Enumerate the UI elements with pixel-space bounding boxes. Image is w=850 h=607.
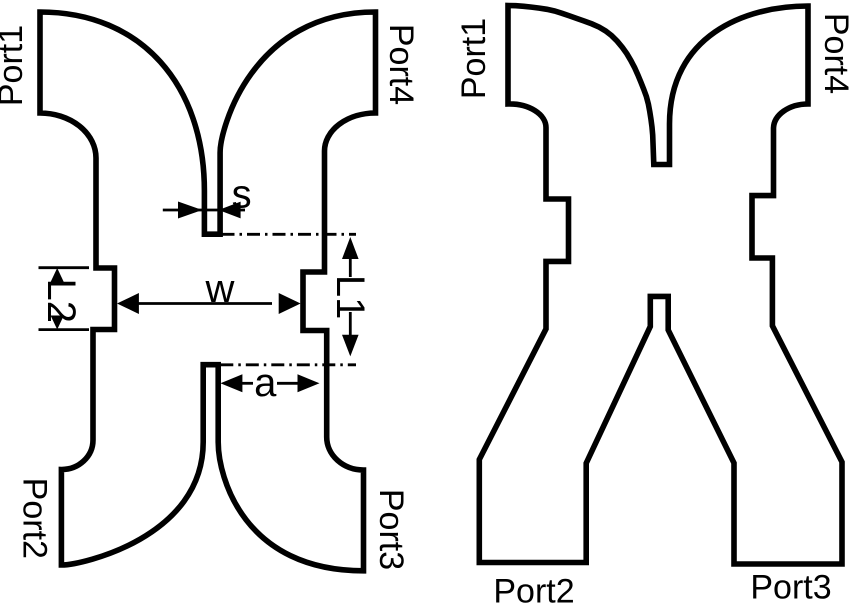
right crossover outline (stepped-impedance layout with straight tapered legs) — [479, 6, 842, 565]
L2 dimension bottom arrowhead — [51, 316, 64, 330]
L1 dimension top arrowhead — [342, 237, 359, 259]
s dimension left arrowhead — [178, 202, 202, 219]
svg-text:w: w — [204, 267, 234, 311]
dash-dot datum line at bottom slot tip — [220, 363, 356, 366]
dash-dot datum line at top slot base — [222, 233, 357, 236]
L1 dimension upper line — [349, 258, 352, 277]
left crossover outline (curved-taper layout with open stubs) — [40, 12, 376, 571]
s dimension right leader line — [240, 209, 245, 212]
a dimension left arrowhead — [220, 374, 242, 392]
a dimension line right segment — [277, 382, 299, 385]
L2 dimension top arrowhead — [51, 268, 64, 282]
svg-text:Port2: Port2 — [493, 573, 574, 607]
L2 lower extension tick — [39, 328, 90, 331]
L1 dimension bottom arrowhead — [342, 335, 359, 357]
svg-text:Port2: Port2 — [16, 478, 54, 559]
L2 upper extension tick — [39, 266, 90, 269]
s dimension line across slot — [202, 209, 221, 212]
w dimension right arrowhead — [279, 293, 301, 314]
s dimension right arrowhead — [219, 202, 241, 219]
w dimension line — [138, 302, 272, 305]
svg-text:Port4: Port4 — [382, 24, 420, 105]
svg-text:a: a — [254, 361, 277, 405]
svg-text:s: s — [232, 173, 252, 217]
w dimension left arrowhead — [117, 293, 139, 314]
svg-text:Port3: Port3 — [750, 568, 831, 606]
a dimension line left segment — [242, 382, 253, 385]
svg-text:Port1: Port1 — [455, 18, 493, 99]
svg-text:Port3: Port3 — [372, 489, 410, 570]
L1 dimension lower line — [349, 312, 352, 336]
svg-text:Port4: Port4 — [817, 13, 850, 94]
svg-text:Port1: Port1 — [0, 25, 30, 106]
a dimension right arrowhead — [298, 374, 320, 392]
s dimension left leader line — [163, 209, 202, 212]
